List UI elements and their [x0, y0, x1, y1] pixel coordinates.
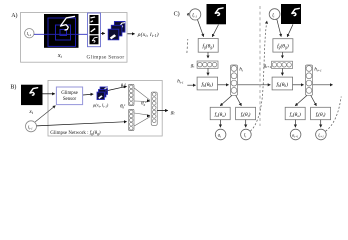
- svg-text:Sensor: Sensor: [63, 97, 77, 102]
- svg-text:ρ(xt, lt-1): ρ(xt, lt-1): [92, 103, 109, 109]
- svg-text:ht-1: ht-1: [177, 80, 184, 85]
- svg-text:at: at: [218, 134, 221, 139]
- svg-text:Glimpse Network : fg(θg): Glimpse Network : fg(θg): [50, 131, 101, 136]
- svg-text:at+1: at+1: [292, 133, 299, 139]
- svg-text:gt: gt: [171, 109, 176, 115]
- svg-text:Glimpse Sensor: Glimpse Sensor: [87, 54, 125, 60]
- svg-text:lt-1: lt-1: [192, 14, 197, 19]
- svg-text:ρ(xt, lt-1): ρ(xt, lt-1): [137, 31, 159, 38]
- svg-text:A): A): [11, 12, 17, 19]
- svg-text:C): C): [174, 11, 180, 18]
- svg-text:lt-1: lt-1: [27, 31, 32, 37]
- svg-text:xt: xt: [28, 109, 33, 115]
- svg-text:gt: gt: [191, 62, 196, 68]
- svg-text:θg1: θg1: [120, 103, 126, 110]
- svg-text:lt: lt: [272, 13, 274, 18]
- svg-text:θg0: θg0: [121, 82, 127, 89]
- svg-text:xt: xt: [57, 53, 63, 59]
- svg-text:B): B): [10, 84, 16, 91]
- svg-text:Glimpse: Glimpse: [61, 91, 78, 96]
- svg-text:fl(θl): fl(θl): [241, 111, 251, 118]
- svg-text:lt-1: lt-1: [28, 125, 33, 131]
- svg-text:fl(θl): fl(θl): [316, 111, 326, 118]
- svg-text:ht: ht: [239, 67, 242, 72]
- svg-text:ht+1: ht+1: [314, 67, 322, 72]
- svg-text:lt: lt: [244, 134, 246, 139]
- svg-text:lt+1: lt+1: [318, 133, 324, 139]
- svg-text:gt+1: gt+1: [264, 63, 272, 69]
